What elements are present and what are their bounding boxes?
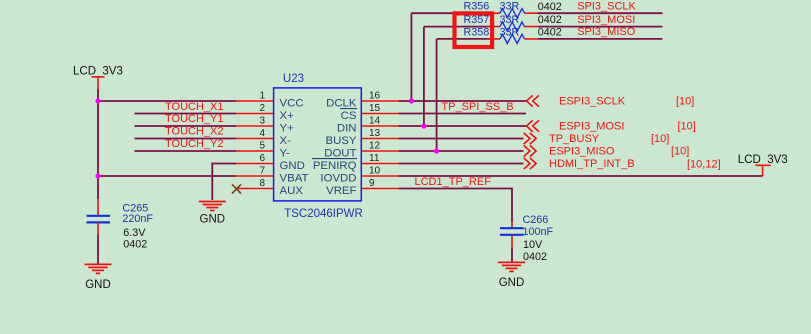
svg-text:AUX: AUX: [280, 185, 304, 197]
svg-text:BUSY: BUSY: [325, 135, 356, 147]
svg-text:[10]: [10]: [671, 146, 689, 158]
svg-text:8: 8: [259, 178, 265, 189]
svg-text:TOUCH_Y2: TOUCH_Y2: [165, 138, 223, 150]
svg-text:CS: CS: [341, 110, 357, 122]
svg-text:9: 9: [369, 178, 375, 189]
svg-text:DCLK: DCLK: [326, 98, 357, 110]
svg-text:5: 5: [259, 140, 265, 151]
svg-text:11: 11: [369, 153, 380, 164]
svg-text:IOVDD: IOVDD: [320, 173, 356, 185]
svg-text:13: 13: [369, 128, 381, 139]
svg-text:VBAT: VBAT: [280, 173, 309, 185]
svg-text:14: 14: [369, 115, 381, 126]
svg-text:TSC2046IPWR: TSC2046IPWR: [284, 208, 363, 220]
svg-text:16: 16: [369, 90, 381, 101]
svg-text:0402: 0402: [538, 14, 562, 26]
svg-text:GND: GND: [499, 277, 525, 289]
svg-text:1: 1: [259, 90, 265, 101]
svg-text:PENIRQ: PENIRQ: [313, 160, 357, 172]
svg-text:VREF: VREF: [326, 185, 356, 197]
svg-text:GND: GND: [200, 213, 226, 225]
svg-text:33R: 33R: [500, 1, 520, 13]
svg-text:R357: R357: [464, 14, 490, 26]
svg-text:U23: U23: [283, 73, 304, 85]
svg-text:33R: 33R: [500, 26, 520, 38]
svg-text:HDMI_TP_INT_B: HDMI_TP_INT_B: [549, 158, 635, 170]
svg-text:GND: GND: [85, 279, 111, 291]
svg-text:TOUCH_X1: TOUCH_X1: [165, 101, 223, 113]
svg-text:C266: C266: [523, 214, 549, 226]
svg-text:[10,12]: [10,12]: [687, 159, 721, 171]
svg-text:LCD1_TP_REF: LCD1_TP_REF: [415, 176, 492, 188]
svg-text:R356: R356: [464, 1, 490, 13]
svg-text:X+: X+: [280, 110, 295, 122]
svg-text:DIN: DIN: [337, 123, 357, 135]
svg-text:R358: R358: [464, 26, 490, 38]
svg-text:10: 10: [369, 165, 381, 176]
svg-text:7: 7: [259, 165, 265, 176]
svg-text:VCC: VCC: [280, 98, 304, 110]
svg-text:LCD_3V3: LCD_3V3: [73, 65, 123, 77]
svg-text:100nF: 100nF: [523, 226, 554, 238]
svg-text:X-: X-: [280, 135, 292, 147]
svg-text:0402: 0402: [123, 239, 147, 251]
svg-text:2: 2: [259, 103, 265, 114]
svg-text:[10]: [10]: [678, 121, 696, 133]
svg-text:15: 15: [369, 103, 381, 114]
svg-text:DOUT: DOUT: [324, 148, 356, 160]
svg-text:SPI3_SCLK: SPI3_SCLK: [577, 1, 636, 13]
svg-text:0402: 0402: [523, 251, 547, 263]
svg-text:12: 12: [369, 140, 381, 151]
svg-text:220nF: 220nF: [122, 213, 153, 225]
svg-text:6: 6: [259, 153, 265, 164]
svg-text:Y-: Y-: [280, 148, 291, 160]
svg-text:3: 3: [259, 115, 265, 126]
svg-text:LCD_3V3: LCD_3V3: [738, 154, 788, 166]
svg-text:0402: 0402: [538, 26, 562, 38]
svg-text:6.3V: 6.3V: [123, 227, 146, 239]
svg-text:ESPI3_SCLK: ESPI3_SCLK: [559, 96, 626, 108]
svg-text:TP_SPI_SS_B: TP_SPI_SS_B: [441, 101, 513, 113]
svg-text:TOUCH_Y1: TOUCH_Y1: [165, 113, 223, 125]
svg-text:TOUCH_X2: TOUCH_X2: [165, 126, 223, 138]
svg-text:ESPI3_MISO: ESPI3_MISO: [549, 146, 615, 158]
svg-text:[10]: [10]: [676, 96, 694, 108]
svg-text:SPI3_MISO: SPI3_MISO: [577, 26, 636, 38]
svg-text:[10]: [10]: [651, 133, 669, 145]
svg-text:10V: 10V: [523, 239, 543, 251]
svg-text:33R: 33R: [500, 14, 520, 26]
svg-text:TP_BUSY: TP_BUSY: [549, 133, 600, 145]
svg-text:ESPI3_MOSI: ESPI3_MOSI: [559, 121, 624, 133]
svg-text:GND: GND: [280, 160, 305, 172]
svg-text:4: 4: [259, 128, 265, 139]
svg-text:0402: 0402: [538, 1, 562, 13]
svg-text:Y+: Y+: [280, 123, 295, 135]
svg-text:SPI3_MOSI: SPI3_MOSI: [577, 14, 635, 26]
